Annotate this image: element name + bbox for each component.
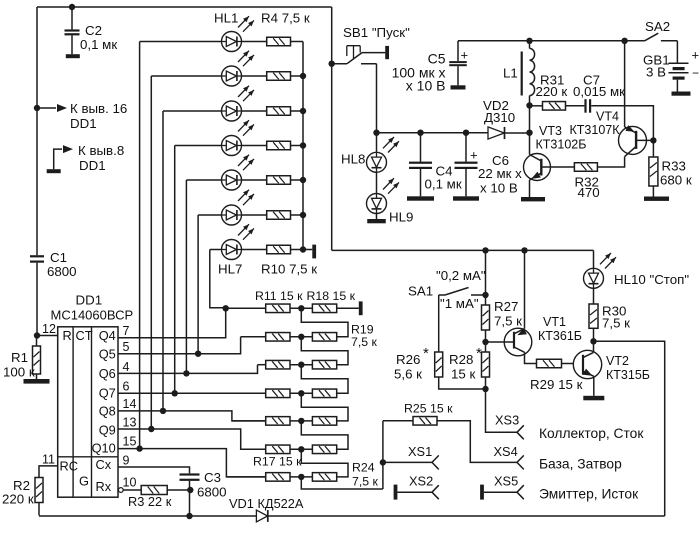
svg-text:14: 14 — [123, 397, 137, 411]
svg-text:680 к: 680 к — [660, 173, 692, 188]
svg-text:HL1: HL1 — [214, 11, 238, 26]
LED HL3 — [222, 86, 255, 121]
LED HL4 — [222, 120, 255, 155]
diode VD2 — [483, 98, 530, 139]
svg-text:R3 22 к: R3 22 к — [128, 494, 172, 509]
wire — [291, 179, 304, 181]
svg-text:R4 7,5 к: R4 7,5 к — [261, 11, 310, 26]
wire ladder — [301, 393, 348, 421]
switch SA2 — [645, 19, 678, 41]
wire — [291, 249, 304, 251]
LED HL5 — [222, 155, 255, 190]
resistor R19 — [312, 333, 336, 342]
svg-text:SB1 "Пуск": SB1 "Пуск" — [343, 25, 410, 40]
svg-text:C2: C2 — [85, 23, 102, 38]
connector XS2 — [432, 485, 439, 499]
node bus — [300, 73, 306, 79]
svg-text:+: + — [692, 48, 700, 63]
svg-text:22 мк х: 22 мк х — [478, 166, 522, 181]
wire HL6 anode — [198, 215, 221, 354]
svg-text:15: 15 — [123, 435, 137, 449]
resistor R4 — [267, 37, 291, 46]
label collector — [539, 426, 644, 441]
wire VT2 collector — [593, 341, 595, 352]
transistor VT4 — [570, 110, 654, 157]
wire ladder — [301, 365, 348, 394]
svg-text:R28: R28 — [449, 352, 473, 367]
node — [526, 102, 532, 108]
wire — [562, 363, 584, 365]
svg-text:C3: C3 — [204, 470, 221, 485]
svg-text:Cx: Cx — [96, 457, 112, 472]
svg-text:R33: R33 — [662, 159, 686, 174]
wire — [167, 489, 189, 491]
node — [521, 247, 527, 253]
svg-text:SA2: SA2 — [645, 19, 670, 34]
svg-text:6800: 6800 — [47, 264, 77, 279]
wire VT4 emitter — [624, 41, 626, 127]
svg-text:XS2: XS2 — [409, 474, 433, 489]
resistor R6 — [267, 107, 291, 116]
connector XS5 — [517, 485, 524, 499]
node — [482, 386, 488, 392]
wire — [438, 295, 440, 352]
svg-text:Эмиттер, Исток: Эмиттер, Исток — [539, 487, 639, 502]
svg-text:220 к: 220 к — [536, 84, 568, 99]
LED HL8 — [341, 133, 399, 194]
node N4 — [298, 390, 304, 396]
label emitter — [539, 487, 639, 502]
capacitor C4 — [407, 130, 462, 201]
svg-text:К выв. 16: К выв. 16 — [70, 101, 127, 116]
svg-text:VT2: VT2 — [606, 354, 629, 368]
node bus — [300, 212, 306, 218]
node — [621, 38, 627, 44]
node HL8 — [373, 130, 379, 136]
label HL7 — [218, 262, 242, 277]
svg-text:Q7: Q7 — [99, 386, 116, 401]
svg-text:R25 15 к: R25 15 к — [404, 402, 453, 416]
label base — [539, 457, 622, 472]
capacitor C6 — [453, 130, 522, 201]
LED HL6 — [222, 190, 255, 225]
node — [526, 38, 532, 44]
wire — [242, 179, 267, 181]
svg-text:0,1 мк: 0,1 мк — [80, 37, 117, 52]
resistor R21 — [312, 389, 336, 398]
wire ladder — [301, 308, 348, 337]
label R17 — [253, 455, 302, 469]
svg-text:9: 9 — [123, 454, 130, 468]
wire — [242, 75, 267, 77]
wire XS1 — [383, 444, 432, 462]
svg-text:VT3: VT3 — [539, 124, 562, 138]
svg-text:DD1: DD1 — [76, 293, 103, 308]
node N3 — [298, 362, 304, 368]
ground VT2 — [583, 396, 604, 401]
svg-text:XS5: XS5 — [494, 474, 518, 489]
wire LED bus — [302, 42, 304, 250]
wire Q7 — [118, 392, 266, 394]
svg-text:5,6 к: 5,6 к — [394, 367, 422, 382]
svg-text:7: 7 — [123, 324, 130, 338]
svg-text:0,015 мк: 0,015 мк — [573, 84, 625, 99]
wire mid rail — [332, 249, 594, 251]
svg-text:−: − — [692, 66, 699, 80]
wire HL1 anode — [140, 42, 222, 449]
wire VT1 emitter — [524, 250, 526, 328]
wire — [331, 7, 333, 250]
svg-text:100 к: 100 к — [3, 365, 35, 380]
node HL3-Q — [160, 408, 166, 414]
svg-text:220 к: 220 к — [2, 492, 34, 507]
wire XS5 — [484, 474, 518, 493]
wire HL4 anode — [175, 146, 222, 394]
wire — [290, 336, 312, 338]
resistor R7 — [267, 141, 291, 150]
svg-text:*: * — [423, 345, 429, 362]
svg-text:К выв.8: К выв.8 — [78, 143, 124, 158]
wire — [242, 110, 267, 112]
wire N7 out — [301, 477, 383, 489]
wire XS3 — [486, 389, 520, 432]
wire node line — [377, 132, 489, 134]
wire K vyv16 — [37, 101, 127, 131]
switch SA1 — [408, 268, 486, 311]
label R11 — [255, 289, 303, 303]
ground K8 — [47, 169, 61, 173]
svg-text:12: 12 — [42, 322, 56, 336]
node HL7-Q4 — [223, 305, 229, 311]
svg-text:VT1: VT1 — [543, 315, 566, 329]
resistor R9 — [267, 211, 291, 220]
wire — [258, 364, 266, 366]
wire Q6 — [118, 365, 258, 374]
svg-text:VT4: VT4 — [596, 110, 619, 124]
svg-text:R24: R24 — [352, 461, 375, 475]
svg-text:15 к: 15 к — [451, 367, 475, 382]
svg-text:HL8: HL8 — [341, 152, 365, 167]
resistor R5 — [267, 72, 291, 81]
svg-text:DD1: DD1 — [70, 116, 97, 131]
resistor R15 — [266, 417, 290, 426]
svg-text:R11 15 к: R11 15 к — [255, 289, 303, 303]
wire — [290, 364, 312, 366]
svg-text:VD1 КД522А: VD1 КД522А — [229, 496, 304, 511]
plug pin X2 — [359, 301, 363, 315]
resistor R8 — [267, 176, 291, 185]
node N7 — [298, 474, 304, 480]
svg-text:"1 мА": "1 мА" — [440, 296, 479, 311]
node pin12 — [34, 332, 40, 338]
wire — [36, 263, 38, 336]
svg-text:470: 470 — [578, 185, 600, 200]
svg-text:КТ315Б: КТ315Б — [606, 368, 650, 382]
wire pin11 — [39, 466, 58, 478]
svg-text:HL10 "Стоп": HL10 "Стоп" — [614, 272, 689, 287]
wire — [337, 307, 359, 309]
wire ladder — [301, 337, 348, 365]
svg-text:0,1 мк: 0,1 мк — [425, 177, 462, 192]
node SB1 — [329, 61, 335, 67]
IC DD1 MC14060BCP counter — [42, 293, 136, 498]
svg-text:CT: CT — [76, 328, 93, 343]
svg-text:C1: C1 — [50, 250, 67, 265]
wire — [37, 335, 58, 337]
LED HL2 — [222, 51, 255, 86]
svg-text:R17 15 к: R17 15 к — [253, 455, 302, 469]
node N1 — [298, 305, 304, 311]
wire — [485, 250, 487, 295]
wire Q5 — [118, 337, 241, 354]
capacitor C5 — [392, 41, 468, 94]
node N2 — [298, 334, 304, 340]
svg-text:Q6: Q6 — [99, 366, 116, 381]
wire — [290, 448, 312, 450]
label HL10 — [614, 272, 689, 287]
wire — [529, 106, 531, 155]
diode VD1 — [229, 496, 304, 522]
svg-text:DD1: DD1 — [79, 158, 106, 173]
resistor R25 — [383, 402, 453, 426]
svg-text:База, Затвор: База, Затвор — [539, 457, 622, 472]
resistor R31 — [530, 73, 568, 111]
node N5 — [298, 418, 304, 424]
wire — [290, 392, 312, 394]
svg-text:R18 15 к: R18 15 к — [307, 289, 356, 303]
svg-text:R10 7,5 к: R10 7,5 к — [261, 262, 317, 277]
node XS1 — [380, 459, 386, 465]
svg-text:Rx: Rx — [96, 479, 112, 494]
node Rx-C3 — [187, 487, 193, 493]
wire Rx — [123, 489, 141, 491]
svg-text:Q4: Q4 — [99, 328, 116, 343]
wire — [676, 41, 678, 63]
svg-text:R1: R1 — [11, 350, 28, 365]
svg-text:RC: RC — [60, 459, 78, 474]
wire — [36, 7, 38, 255]
svg-text:HL7: HL7 — [218, 262, 242, 277]
resistor R28 — [449, 342, 490, 389]
wire — [597, 157, 624, 167]
label R18 — [307, 289, 356, 303]
resistor R26 — [394, 345, 443, 382]
label R10 — [261, 262, 317, 277]
svg-text:"0,2 мА": "0,2 мА" — [436, 268, 486, 283]
wire bottom rail — [39, 515, 665, 517]
wire — [291, 41, 304, 43]
svg-text:6800: 6800 — [197, 485, 227, 500]
svg-text:7,5 к: 7,5 к — [351, 335, 378, 349]
wire — [382, 421, 384, 489]
capacitor C7 — [566, 73, 654, 141]
wire — [242, 214, 267, 216]
node A — [69, 4, 75, 10]
plug pin X1 — [312, 245, 316, 259]
svg-text:G: G — [79, 474, 89, 489]
resistor R17 — [266, 473, 290, 482]
LED HL7 — [222, 224, 255, 259]
wire — [303, 249, 312, 251]
label R4 — [261, 11, 310, 26]
node HL6-Q — [195, 351, 201, 357]
node K16 — [34, 105, 40, 111]
svg-text:6: 6 — [123, 380, 130, 394]
wire VT2 emitter — [593, 376, 595, 396]
svg-text:10: 10 — [123, 476, 137, 490]
pin bubble Rx — [118, 488, 123, 493]
svg-text:XS1: XS1 — [408, 444, 432, 459]
label XS4 — [494, 444, 518, 459]
resistor R2 — [2, 478, 43, 516]
label R24 — [352, 461, 379, 489]
wire — [226, 476, 265, 478]
wire HL7 anode — [210, 250, 226, 308]
svg-text:R29 15 к: R29 15 к — [530, 377, 583, 392]
wire Q4 — [118, 308, 226, 337]
wire — [290, 307, 312, 309]
wire — [291, 214, 304, 216]
label HL1 — [214, 11, 238, 26]
connector XS1 — [432, 455, 439, 469]
capacitor C3 — [180, 470, 227, 516]
resistor R13 — [266, 360, 290, 369]
resistor R32 — [574, 163, 599, 200]
wire — [241, 336, 266, 338]
node N6 — [298, 446, 304, 452]
wire — [226, 307, 266, 309]
wire Cx — [118, 467, 190, 473]
LED HL10 — [584, 250, 617, 304]
resistor R18 — [312, 304, 336, 313]
svg-text:+: + — [461, 48, 469, 63]
wire — [242, 41, 267, 43]
wire — [37, 6, 332, 8]
node VD2-VT3 — [526, 130, 532, 136]
svg-text:R27: R27 — [494, 299, 518, 314]
node — [482, 247, 488, 253]
svg-text:Коллектор, Сток: Коллектор, Сток — [539, 426, 644, 441]
resistor R14 — [266, 389, 290, 398]
node bus — [300, 108, 306, 114]
svg-text:х 10 В: х 10 В — [480, 181, 518, 196]
svg-text:HL9: HL9 — [389, 210, 413, 225]
svg-text:КТ3107К: КТ3107К — [570, 123, 621, 137]
svg-text:+: + — [470, 148, 478, 163]
wire — [265, 392, 267, 394]
wire top right rail — [458, 40, 645, 42]
resistor R10 — [267, 245, 291, 254]
wire Q10 — [118, 449, 266, 477]
svg-text:R26: R26 — [396, 352, 420, 367]
svg-text:Q5: Q5 — [99, 347, 116, 362]
svg-text:7,5 к: 7,5 к — [494, 314, 522, 329]
resistor R29 — [530, 359, 583, 392]
resistor R27 — [482, 295, 523, 342]
wire K vyv8 — [54, 143, 125, 173]
pushbutton SB1 — [332, 25, 410, 64]
resistor R33 — [644, 140, 692, 201]
svg-text:Д310: Д310 — [484, 110, 515, 125]
svg-text:МС14060ВСР: МС14060ВСР — [51, 308, 134, 323]
svg-text:Q10: Q10 — [92, 441, 116, 456]
wire — [290, 420, 312, 422]
node — [186, 513, 192, 519]
svg-text:Q8: Q8 — [99, 404, 116, 419]
node bus — [300, 177, 306, 183]
wire Q8 — [118, 411, 266, 421]
wire HL5 anode — [186, 180, 221, 373]
svg-text:SA1: SA1 — [408, 284, 433, 299]
node HL5-Q — [183, 370, 189, 376]
svg-text:XS3: XS3 — [495, 413, 519, 428]
wire — [376, 64, 378, 133]
wire — [291, 75, 304, 77]
node HL1-Q — [136, 445, 142, 451]
plug XS2 pin — [394, 485, 398, 500]
wire — [242, 145, 267, 147]
wire HL3 anode — [163, 111, 222, 411]
battery GB1 — [643, 48, 699, 96]
svg-text:11: 11 — [42, 453, 55, 467]
node — [482, 292, 488, 298]
wire VT1 collector — [525, 352, 537, 363]
svg-text:КТ3102Б: КТ3102Б — [536, 138, 587, 152]
wire ladder — [301, 449, 348, 477]
label R19 — [351, 323, 378, 350]
inductor L1 — [503, 41, 535, 106]
node bus — [300, 246, 306, 252]
wire ladder — [301, 421, 348, 449]
wire — [241, 448, 266, 450]
resistor R12 — [266, 333, 290, 342]
svg-text:7,5 к: 7,5 к — [352, 475, 379, 489]
LED HL1 — [222, 16, 255, 51]
resistor R16 — [266, 445, 290, 454]
wire HL2 anode — [151, 76, 221, 429]
svg-text:13: 13 — [123, 416, 137, 430]
svg-text:х 10 В: х 10 В — [406, 78, 446, 94]
capacitor C2 — [65, 7, 118, 58]
svg-text:XS4: XS4 — [494, 444, 518, 459]
svg-text:5: 5 — [123, 340, 130, 354]
svg-text:КТ361Б: КТ361Б — [538, 329, 582, 343]
plug XS5 pin — [480, 485, 484, 500]
svg-text:3 В: 3 В — [646, 65, 666, 80]
svg-text:Q9: Q9 — [99, 423, 116, 438]
wire Q9 — [118, 429, 266, 449]
wire XS2 — [397, 474, 433, 493]
capacitor C1 — [30, 250, 77, 279]
transistor VT2 — [573, 350, 650, 382]
svg-text:7,5 к: 7,5 к — [602, 316, 630, 331]
LED HL9 — [367, 178, 414, 224]
wire — [291, 145, 304, 147]
node HL4-Q — [172, 390, 178, 396]
resistor R1 — [3, 336, 50, 384]
resistor R24 — [312, 473, 336, 482]
connector XS4 — [517, 455, 524, 469]
wire — [291, 110, 304, 112]
transistor VT3 — [521, 124, 586, 201]
node HL2-Q — [148, 426, 154, 432]
resistor R30 — [589, 304, 630, 342]
resistor R23 — [312, 445, 336, 454]
resistor R11 — [266, 304, 290, 313]
resistor R22 — [312, 417, 336, 426]
resistor R20 — [312, 360, 336, 369]
node — [590, 338, 596, 344]
